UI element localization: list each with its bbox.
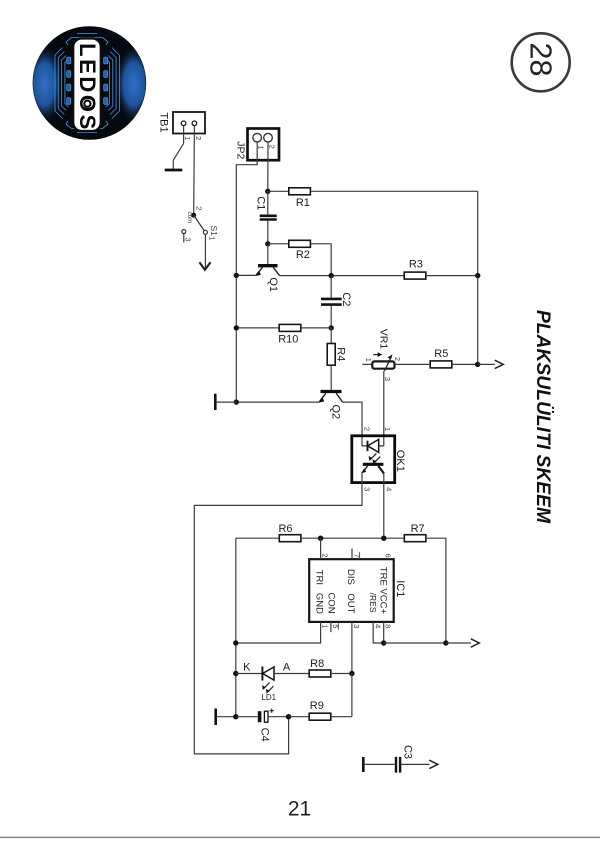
svg-text:GND: GND: [314, 593, 325, 614]
capacitor C4 (polarized): [258, 709, 274, 723]
resistor R4 (vertical): [327, 344, 335, 366]
wire R6 to R7: [301, 537, 404, 539]
ground bar under TB1: [165, 169, 183, 172]
svg-text:Q2: Q2: [330, 404, 342, 419]
IC1 pin5 stub: [330, 622, 332, 632]
node rail/LED: [233, 671, 238, 676]
svg-text:2: 2: [362, 427, 371, 431]
svg-text:CON: CON: [325, 592, 336, 613]
wire C2 to node: [330, 306, 332, 328]
capacitor C3: [396, 757, 400, 773]
svg-text:IC1: IC1: [394, 580, 406, 597]
circled page marker 28: [512, 33, 570, 91]
svg-text:OUT: OUT: [345, 593, 356, 613]
wire R2 to C2 top: [310, 244, 331, 276]
svg-text:R6: R6: [278, 523, 292, 535]
LEDOS logo: [26, 26, 154, 140]
resistor R8: [309, 658, 331, 677]
S1 pin3 stub: [183, 234, 185, 243]
wire IC1 pin3 down: [351, 622, 353, 674]
wire terminal to node: [215, 401, 236, 403]
S1 lever: [194, 215, 204, 230]
arrow down from S1: [199, 262, 210, 270]
right rail: [477, 191, 479, 364]
output wire: [478, 363, 495, 365]
wire C1 to node: [267, 221, 269, 244]
resistor R1: [289, 188, 311, 209]
wire to R1: [268, 190, 289, 192]
node rail/R10: [234, 325, 239, 330]
return wire OK1 pin3: [194, 483, 362, 754]
wire R8 to OUT line: [331, 673, 352, 675]
resistor R5: [430, 348, 452, 368]
svg-text:1: 1: [383, 427, 392, 431]
svg-text:1: 1: [208, 236, 217, 240]
wire Q1 base: [267, 245, 269, 264]
LED LD1: [262, 667, 274, 694]
wire TB1 pin2 to S1 com: [193, 126, 196, 214]
svg-text:Q1: Q1: [267, 277, 279, 292]
wire Q1 emitter to rail: [236, 274, 256, 276]
node R1/C1: [265, 189, 270, 194]
wire IC1 pin1 to rail: [236, 622, 321, 643]
svg-text:6: 6: [383, 554, 392, 558]
S1 pin 3 contact: [182, 230, 186, 234]
transistor Q1: [255, 266, 280, 276]
node R8/OUT: [349, 671, 354, 676]
capacitor C1: [260, 216, 277, 220]
svg-text:1: 1: [321, 624, 330, 628]
wire TB1 pin1 down: [183, 126, 185, 144]
svg-text:R7: R7: [411, 523, 425, 535]
resistor R2: [289, 240, 311, 261]
wire left rail lower: [235, 538, 237, 717]
svg-text:C1: C1: [255, 196, 267, 210]
svg-text:K: K: [243, 661, 251, 673]
wire to ground: [172, 160, 174, 170]
OUT line down to R9: [351, 674, 353, 717]
terminal bar left of Q2 line: [214, 394, 217, 410]
output line lower: [384, 642, 446, 644]
wire VR1 pin2 to R5: [395, 363, 431, 365]
svg-text:R2: R2: [296, 249, 310, 261]
wire S1 down to arrow: [204, 234, 206, 268]
wire terminal to C3: [363, 763, 395, 765]
node C2/R10/R4: [329, 325, 334, 330]
svg-text:8: 8: [384, 624, 393, 628]
node pin4/pin8: [381, 640, 386, 645]
resistor R3: [404, 259, 426, 280]
wire Q2 emitter to rail: [236, 401, 319, 403]
svg-text:R3: R3: [409, 259, 423, 271]
node rail/C4: [233, 714, 238, 719]
wire node to R9: [289, 716, 310, 718]
node OK1 pin4/IC1 pin6: [381, 536, 386, 541]
optocoupler OK1: [352, 436, 395, 483]
resistor R10: [278, 324, 301, 345]
svg-text:1: 1: [257, 145, 266, 149]
resistor R9: [309, 700, 331, 720]
node C1/R2/Q1 base: [265, 241, 270, 246]
node right rail/R3: [475, 273, 480, 278]
svg-text:TRI: TRI: [314, 570, 325, 585]
svg-text:R8: R8: [310, 658, 324, 670]
arrow output right (lower): [471, 639, 480, 647]
svg-text:2: 2: [194, 136, 203, 140]
output wire lower: [446, 642, 471, 644]
svg-text:/RES: /RES: [368, 593, 378, 613]
wire rail to C4: [236, 716, 258, 718]
capacitor C2: [321, 299, 342, 305]
IC1 pin7 stub: [351, 549, 353, 560]
wire LED to R8: [274, 673, 309, 675]
svg-text:R1: R1: [296, 197, 310, 209]
connector JP2: [248, 129, 280, 161]
svg-text:28: 28: [523, 43, 557, 77]
svg-text:2: 2: [195, 206, 204, 210]
node C4/R9/return: [286, 714, 291, 719]
node rail/R5/output: [475, 362, 480, 367]
wire C3 to arrow: [401, 763, 429, 765]
svg-text:4: 4: [373, 624, 382, 628]
connector TB1: [173, 112, 205, 134]
svg-text:4: 4: [384, 487, 393, 491]
svg-text:OK1: OK1: [394, 450, 406, 472]
svg-text:R4: R4: [335, 347, 347, 361]
svg-text:com: com: [186, 211, 193, 223]
S1 contact circle: [203, 230, 207, 234]
svg-text:R10: R10: [278, 333, 298, 345]
resistor R6: [278, 523, 300, 542]
wire Q1 collector to R3: [280, 275, 405, 277]
svg-text:C4: C4: [259, 728, 271, 742]
wire rail to R6: [236, 537, 279, 539]
OK1 emitter to pin3: [361, 473, 363, 482]
wire to R2: [268, 243, 289, 245]
node C2/R3 line: [329, 273, 334, 278]
terminal bar C4 line: [214, 709, 217, 726]
svg-text:S1: S1: [209, 225, 219, 236]
wire into C1: [267, 191, 269, 214]
wire rail to R10: [236, 327, 279, 329]
svg-text:C3: C3: [402, 745, 414, 759]
wire IC1 pin8: [383, 622, 385, 643]
wire to C2: [330, 276, 332, 298]
wire Q2 collector to OK1 pin2: [343, 402, 362, 446]
wire IC1 pin4: [373, 622, 384, 643]
wire R3 to rail: [426, 275, 478, 277]
wire terminal to rail: [216, 716, 236, 718]
wire R7 down to output line: [426, 538, 446, 643]
svg-text:LD1: LD1: [261, 693, 276, 702]
wire R4 to Q2 base: [330, 365, 332, 390]
svg-text:R9: R9: [310, 700, 324, 712]
svg-text:DIS: DIS: [345, 569, 356, 585]
node rail/pin1: [233, 640, 238, 645]
svg-text:C2: C2: [340, 292, 352, 306]
svg-text:TB1: TB1: [158, 112, 170, 132]
svg-text:PLAKSULÜLITI SKEEM: PLAKSULÜLITI SKEEM: [532, 310, 555, 524]
svg-text:3: 3: [352, 624, 361, 628]
wire R10 to node: [301, 327, 331, 329]
svg-text:JP2: JP2: [235, 141, 247, 159]
wire R1 to right rail: [310, 190, 477, 192]
node rail/Q1 emitter: [234, 273, 239, 278]
transistor Q2: [318, 392, 343, 403]
node R7/output: [443, 640, 448, 645]
svg-text:VR1: VR1: [378, 329, 390, 350]
svg-text:R5: R5: [434, 348, 448, 360]
switch S1 com node: [191, 213, 196, 218]
wire C4 to node: [268, 716, 289, 718]
wire R9 to OUT line: [331, 716, 352, 718]
svg-text:3: 3: [183, 237, 192, 241]
wire R5 to rail: [452, 363, 478, 365]
wire VR1 wiper to OK1 pin1: [383, 371, 385, 446]
wire JP2 pin2 down to C1: [267, 142, 269, 191]
wire TB1 pin1 diagonal: [173, 143, 183, 160]
terminal bar C3: [362, 757, 365, 772]
wire node to R4: [330, 328, 332, 344]
svg-text:1: 1: [183, 136, 192, 140]
footer rule: [0, 836, 600, 838]
wire rail to LED: [236, 673, 263, 675]
potentiometer VR1: [362, 352, 394, 371]
svg-text:3: 3: [363, 487, 372, 491]
node IC1 pin2: [318, 536, 323, 541]
svg-text:2: 2: [320, 553, 329, 557]
IC U1 555 box: [309, 559, 394, 622]
svg-text:2: 2: [393, 357, 402, 361]
svg-text:21: 21: [288, 798, 311, 821]
svg-text:2: 2: [267, 145, 276, 149]
wire IC1 pin2 up: [320, 538, 322, 559]
svg-text:LEDOS: LEDOS: [75, 43, 100, 132]
arrow output right (R5): [495, 360, 504, 368]
arrow output right (C3): [429, 760, 438, 768]
OK1 pin4 down to R6 line: [383, 473, 385, 538]
resistor R7: [404, 523, 426, 542]
svg-text:A: A: [283, 661, 291, 673]
wire JP2 pin1 to left rail: [236, 142, 257, 402]
svg-text:1: 1: [364, 358, 373, 362]
node rail end/Q2: [234, 399, 239, 404]
